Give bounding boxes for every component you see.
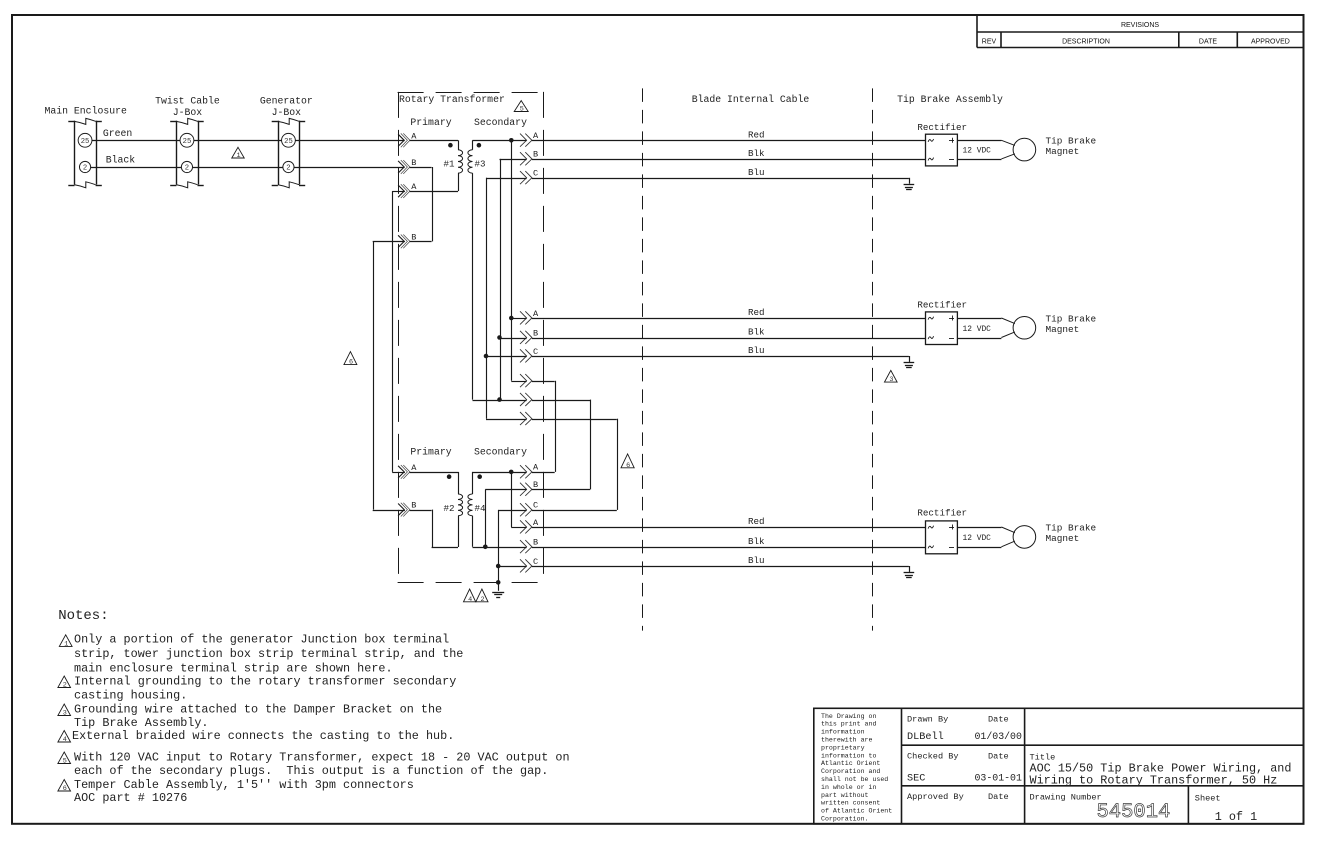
wire node C stub group2 [486,356,527,358]
svg-text:4: 4 [468,596,472,604]
wire winding #4 top to jack A [473,472,527,474]
svg-text:4: 4 [63,736,67,744]
rectifier U2 [926,312,958,345]
svg-text:Blu: Blu [748,555,765,566]
svg-text:A: A [533,131,539,141]
svg-text:Primary: Primary [410,447,451,458]
svg-text:Checked By: Checked By [907,752,959,762]
svg-text:Atlantic Orient: Atlantic Orient [821,760,880,767]
svg-text:#3: #3 [475,159,486,170]
note 6 triangle [58,780,71,792]
wire jack C stub [498,510,526,512]
note callout triangle 5 [514,101,528,112]
svg-text:Notes:: Notes: [58,608,108,624]
wire node A2 stub to output jack [511,527,526,529]
wire node C stub to jack C [486,178,527,180]
svg-text:Main Enclosure: Main Enclosure [45,105,127,116]
rectifier U1 [926,134,958,166]
blade internal cable boundary (right dashed) [872,88,874,630]
terminal strip TB1 Main Enclosure [74,121,76,185]
wire Red group3 to rectifier 3 [532,527,926,529]
wire winding#4 bottom to output jack B [473,547,527,549]
svg-text:part without: part without [821,792,869,799]
wire Red group1 to rectifier 1 [532,140,926,142]
junction node A2 [509,470,514,475]
svg-text:5: 5 [63,758,67,766]
connector spare jack row 3 [520,412,527,425]
svg-text:main enclosure terminal strip: main enclosure terminal strip are shown … [74,662,393,676]
svg-text:Date: Date [988,752,1009,762]
svg-text:therewith are: therewith are [821,737,872,744]
svg-text:Drawn By: Drawn By [907,715,948,725]
svg-text:6: 6 [349,359,353,367]
svg-text:SEC: SEC [907,773,925,784]
wire jack B stub [485,489,526,491]
svg-text:each of the secondary plugs.: each of the secondary plugs. This output… [74,764,548,778]
svg-text:Tip Brake: Tip Brake [1046,313,1097,324]
junction node C2 at output row [496,564,501,569]
connector primary plug A (transformer 2) [398,466,404,478]
wire node A stub group2 [511,318,526,320]
junction node B group2 [497,335,502,340]
vertical bus node C [486,178,488,419]
svg-text:1: 1 [237,152,241,160]
svg-text:12 VDC: 12 VDC [963,534,992,543]
svg-text:A: A [533,309,539,319]
connector primary plug A (return) [398,185,404,197]
svg-text:1: 1 [64,640,68,648]
ground GND4 (transformer secondary casting) [492,592,504,594]
wire B return plug down to transformer 2 primary B [373,241,405,243]
svg-text:2: 2 [83,165,87,173]
note callout triangle 6 (left) [344,352,357,365]
transformer winding #1 (primary) [458,150,463,173]
rectifier U3 [926,521,958,554]
junction node A group2 [509,316,514,321]
svg-text:2: 2 [63,682,67,690]
svg-text:25: 25 [284,138,293,146]
ground GND2 (blade 2) [909,356,911,362]
svg-text:Generator: Generator [260,96,313,107]
svg-text:A: A [411,131,417,141]
junction node B spare row [497,397,502,402]
connector primary plug B (transformer 2) [398,504,404,516]
wire primary A to winding #1 top [410,140,458,142]
svg-text:J-Box: J-Box [173,107,203,118]
polarity dot winding #2 [447,474,452,479]
connector secondary jack B (group 2) [520,331,527,344]
svg-text:5: 5 [520,106,524,114]
svg-text:strip, tower junction box stri: strip, tower junction box strip terminal… [74,647,463,661]
note callout triangle 6 (right) [621,454,634,468]
svg-text:B: B [533,480,538,490]
svg-text:shall not be used: shall not be used [821,776,888,783]
svg-text:Tip Brake: Tip Brake [1046,135,1097,146]
svg-text:A: A [411,182,417,192]
connector output jack C (group 3) [520,559,527,572]
svg-text:this print and: this print and [821,721,876,728]
svg-text:DLBell: DLBell [907,731,944,743]
vertical node C2 to ground [498,510,500,591]
svg-text:Rectifier: Rectifier [917,508,967,519]
svg-text:B: B [533,328,538,338]
svg-text:1 of 1: 1 of 1 [1215,810,1257,824]
svg-text:Red: Red [748,516,765,527]
svg-text:of Atlantic Orient: of Atlantic Orient [821,808,892,815]
wire Blk group1 to rectifier 1 [532,159,926,161]
vertical node A2 to output A [511,472,513,527]
wire node B stub group2 [500,338,527,340]
svg-text:Tip Brake Assembly: Tip Brake Assembly [897,94,1003,105]
wire primary B under winding #2 [410,510,432,512]
svg-text:Blade Internal Cable: Blade Internal Cable [692,94,810,105]
junction node C2 at boundary [496,580,501,585]
svg-text:12 VDC: 12 VDC [963,147,992,156]
wire node A: winding #3 top to jack A [473,140,527,142]
svg-text:Twist Cable: Twist Cable [155,96,220,107]
connector secondary jack A (group 1) [520,134,527,147]
junction node C group2 [484,354,489,359]
svg-text:Green: Green [103,128,133,139]
wire Black (terminal 2 bus) [91,167,405,169]
svg-text:information: information [821,729,865,736]
wire primary A to winding #2 top [410,472,458,474]
polarity dot winding #3 [477,143,482,148]
wire node B stub to jack B [500,159,527,161]
svg-text:C: C [533,501,538,511]
note callout triangle 2 [476,589,488,602]
connector spare jack row 1 [520,374,527,387]
wire winding #4 bottom lead [472,516,474,547]
svg-text:written consent: written consent [821,800,880,807]
svg-text:6: 6 [626,462,630,470]
title block [814,708,1304,824]
svg-text:C: C [533,347,538,357]
connector secondary jack C (transformer 2) [520,503,527,516]
svg-text:Date: Date [988,715,1009,725]
connector secondary jack A (transformer 2) [520,465,527,478]
terminal strip TB2 Twist Cable J-Box [176,121,178,185]
svg-text:Corporation.: Corporation. [821,816,868,823]
svg-text:Magnet: Magnet [1046,533,1080,544]
svg-text:DESCRIPTION: DESCRIPTION [1062,39,1110,46]
connector primary plug A (top) [398,134,404,146]
svg-text:Blu: Blu [748,345,765,356]
note 2 triangle [58,676,71,688]
svg-text:DATE: DATE [1199,39,1217,46]
wire Blu group3 to ground [532,566,909,568]
svg-text:Blk: Blk [748,327,765,338]
svg-text:03-01-01: 03-01-01 [975,772,1022,783]
tip brake magnet M3 [1013,526,1036,549]
vertical bus node B [500,159,502,400]
svg-text:C: C [533,169,538,179]
svg-text:information to: information to [821,752,876,759]
connector output jack B (group 3) [520,540,527,553]
wire Blk group3 to rectifier 3 [532,547,926,549]
svg-text:Black: Black [106,155,136,166]
connector primary plug B (top) [398,161,404,173]
svg-text:A: A [533,463,539,473]
svg-text:Drawing Number: Drawing Number [1030,793,1102,803]
note callout triangle 1 [232,147,245,158]
svg-text:01/03/00: 01/03/00 [975,731,1022,742]
svg-text:Only a portion of the generato: Only a portion of the generator Junction… [74,632,449,646]
svg-text:Red: Red [748,130,765,141]
svg-text:Date: Date [988,792,1009,802]
svg-text:#1: #1 [444,159,456,170]
svg-text:APPROVED: APPROVED [1251,39,1290,46]
svg-text:With 120 VAC input to Rotary T: With 120 VAC input to Rotary Transformer… [74,750,570,764]
svg-text:in whole or in: in whole or in [821,784,876,791]
svg-text:545014: 545014 [1097,801,1171,824]
svg-text:AOC part # 10276: AOC part # 10276 [74,791,187,805]
ground GND1 (blade 1) [909,178,911,184]
svg-text:REVISIONS: REVISIONS [1121,22,1159,29]
note callout triangle 3 [884,370,897,382]
wire jack A out to loop [532,472,555,474]
svg-text:2: 2 [185,165,189,173]
wire Green (terminal 25 bus) [92,140,405,142]
wire transformer2 primary B lead-in [373,510,405,512]
svg-text:Magnet: Magnet [1046,324,1080,335]
wire Red group2 to rectifier 2 [532,318,926,320]
svg-text:2: 2 [286,165,290,173]
polarity dot winding #1 [448,143,453,148]
svg-text:B: B [533,150,538,160]
svg-text:Sheet: Sheet [1195,794,1221,804]
svg-text:Secondary: Secondary [474,447,527,458]
wire jack B out to loop [532,489,590,491]
terminal strip TB3 Generator J-Box [278,121,280,185]
svg-text:Internal grounding to the rota: Internal grounding to the rotary transfo… [74,675,456,689]
wire winding #3 top lead [472,140,474,150]
rotary transformer dashed boundary [398,92,544,94]
svg-text:12 VDC: 12 VDC [963,325,992,334]
svg-text:J-Box: J-Box [272,107,302,118]
vertical node B2 to output B [485,489,487,546]
wire primary B to vertical [410,167,432,169]
svg-text:B: B [411,501,416,511]
wire spare jack2 to transformer2 B loop [532,400,590,402]
connector output jack A (group 3) [520,520,527,533]
svg-text:3: 3 [63,710,67,718]
transformer winding #3 (secondary) [468,150,473,173]
svg-text:Rotary Transformer: Rotary Transformer [399,94,505,105]
svg-text:#2: #2 [444,503,455,514]
svg-text:Wiring to Rotary Transformer,: Wiring to Rotary Transformer, 50 Hz [1030,774,1278,788]
wire winding #3 bottom lead down to spare plug row [472,173,474,400]
svg-text:A: A [533,518,539,528]
svg-text:#4: #4 [475,503,487,514]
wire Blu group2 to ground [532,356,909,358]
svg-text:Blk: Blk [748,148,765,159]
connector secondary jack B (transformer 2) [520,483,527,496]
svg-text:External braided wire connects: External braided wire connects the casti… [72,729,454,743]
svg-text:Approved By: Approved By [907,792,964,802]
svg-text:6: 6 [63,785,67,793]
junction node A [509,138,514,143]
wire spare jack3 to transformer2 C loop [532,419,617,421]
note callout triangle 4 [464,589,476,602]
svg-text:Grounding wire attached to the: Grounding wire attached to the Damper Br… [74,702,442,716]
wire winding #3 bottom to spare jack 2 [473,400,527,402]
svg-text:Tip Brake: Tip Brake [1046,523,1097,534]
note 5 triangle [58,752,71,764]
wire Blk group2 to rectifier 2 [532,338,926,340]
svg-text:Blk: Blk [748,536,765,547]
connector secondary jack A (group 2) [520,311,527,324]
svg-text:Primary: Primary [410,117,451,128]
svg-text:25: 25 [81,138,90,146]
svg-text:Secondary: Secondary [474,117,527,128]
connector secondary jack C (group 1) [520,171,527,184]
svg-text:B: B [411,232,416,242]
svg-text:B: B [533,538,538,548]
wire A return plug down to transformer 2 primary A [392,191,405,193]
note 4 triangle [58,731,71,743]
ground GND3 (blade 3) [909,566,911,572]
svg-text:Magnet: Magnet [1046,146,1080,157]
blade internal cable boundary (left dashed) [642,88,644,630]
svg-text:3: 3 [889,376,893,384]
revisions table [976,16,978,48]
wire spare jack1 to transformer2 A loop [532,381,555,383]
svg-text:A: A [411,463,417,473]
note 1 triangle [59,635,72,647]
svg-text:Blu: Blu [748,167,765,178]
svg-text:proprietary: proprietary [821,744,865,751]
connector secondary jack C (group 2) [520,349,527,362]
svg-text:2: 2 [480,596,484,604]
svg-text:Rectifier: Rectifier [917,122,967,133]
wire transformer2 primary A lead-in [392,472,405,474]
wire node C2 stub to output jack [498,566,526,568]
svg-text:B: B [411,158,416,168]
polarity dot winding #4 [477,474,482,479]
connector secondary jack B (group 1) [520,152,527,165]
connector primary plug B (return) [398,235,404,247]
svg-text:Rectifier: Rectifier [917,299,967,310]
svg-text:Corporation and: Corporation and [821,768,880,775]
svg-text:25: 25 [183,138,192,146]
transformer winding #2 (primary) [458,494,463,516]
wire winding #4 top lead [472,472,474,494]
svg-text:REV: REV [982,39,997,46]
note 3 triangle [58,704,71,716]
svg-text:Tip Brake Assembly.: Tip Brake Assembly. [74,716,209,730]
svg-text:C: C [533,557,538,567]
wire node C to spare jack 3 [486,419,527,421]
vertical bus node A (to group2 / spare) [511,140,513,380]
wire vertical B to B return plug [432,167,434,241]
transformer winding #4 (secondary) [468,494,473,516]
junction node B2 [483,545,488,550]
svg-text:Red: Red [748,307,765,318]
wire winding #1 bottom to A return plug [458,173,460,191]
wire jack C out to loop [532,510,617,512]
tip brake magnet M2 [1013,316,1036,339]
svg-text:casting housing.: casting housing. [74,689,187,703]
wire node A to spare jack 1 [511,381,526,383]
wire Blu group1 to ground [532,178,909,180]
svg-text:The Drawing on: The Drawing on [821,713,876,720]
connector spare jack row 2 [520,393,527,406]
tip brake magnet M1 [1013,138,1036,161]
